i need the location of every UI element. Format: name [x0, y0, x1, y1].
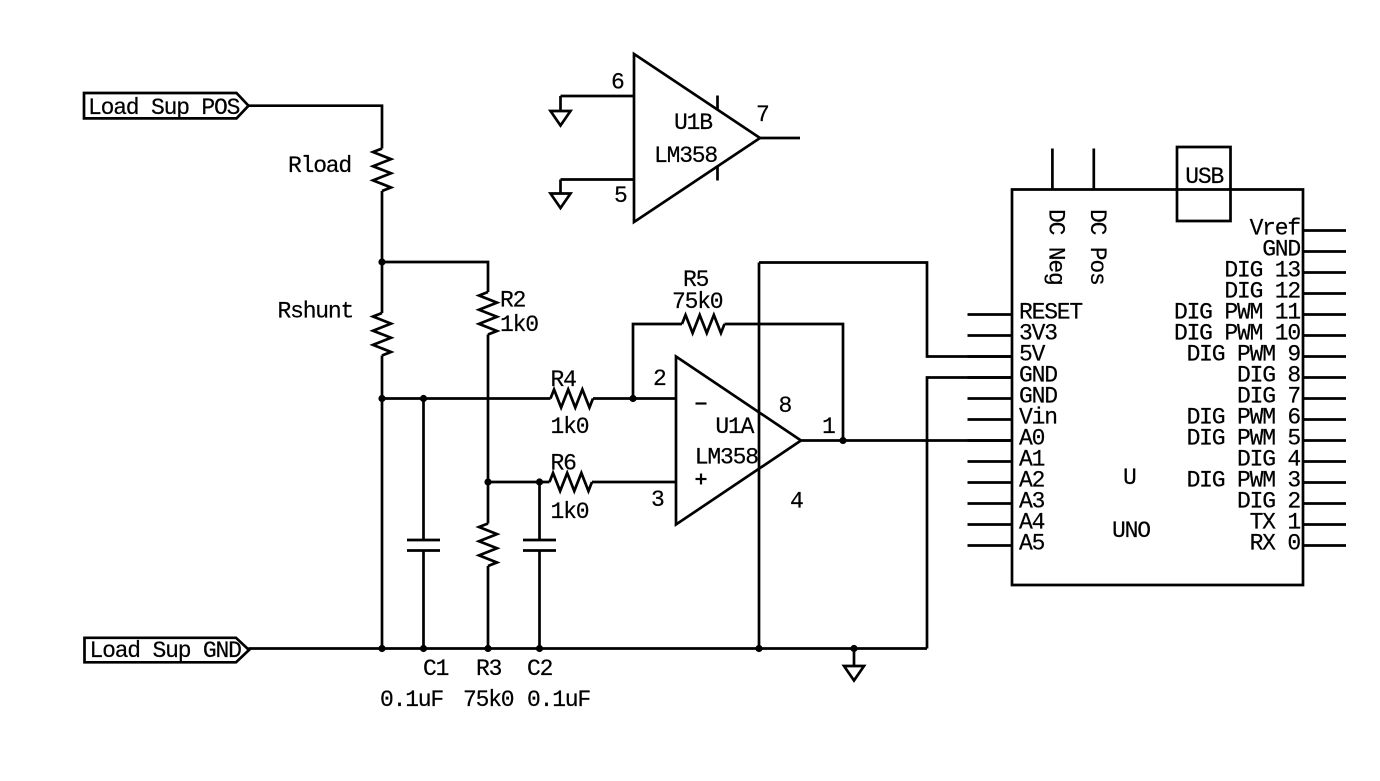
svg-text:R6: R6: [551, 451, 577, 477]
svg-text:2: 2: [653, 366, 666, 392]
svg-text:A5: A5: [1019, 530, 1045, 556]
svg-text:R2: R2: [500, 288, 526, 314]
svg-text:UNO: UNO: [1112, 518, 1150, 544]
svg-text:C1: C1: [423, 656, 449, 682]
svg-text:8: 8: [779, 393, 792, 419]
svg-text:1k0: 1k0: [500, 312, 538, 338]
svg-text:Load Sup GND: Load Sup GND: [90, 638, 242, 664]
svg-text:U1A: U1A: [715, 414, 754, 440]
svg-text:DC Neg: DC Neg: [1042, 209, 1068, 285]
svg-text:RX 0: RX 0: [1250, 530, 1301, 556]
svg-text:6: 6: [611, 70, 624, 96]
svg-text:R3: R3: [476, 656, 502, 682]
svg-text:DC Pos: DC Pos: [1084, 209, 1110, 285]
svg-text:U1B: U1B: [674, 110, 712, 136]
svg-text:R4: R4: [551, 367, 577, 393]
svg-text:Load Sup POS: Load Sup POS: [88, 95, 240, 121]
svg-text:USB: USB: [1185, 164, 1223, 190]
svg-text:0.1uF: 0.1uF: [380, 687, 443, 713]
svg-text:Rshunt: Rshunt: [278, 298, 354, 324]
svg-text:U: U: [1123, 465, 1136, 491]
svg-text:3: 3: [651, 487, 664, 513]
svg-text:Rload: Rload: [288, 153, 351, 179]
svg-text:75k0: 75k0: [672, 289, 723, 315]
svg-text:1k0: 1k0: [551, 499, 589, 525]
svg-text:7: 7: [756, 102, 769, 128]
svg-text:1: 1: [822, 414, 835, 440]
svg-text:75k0: 75k0: [463, 687, 514, 713]
svg-text:0.1uF: 0.1uF: [527, 687, 590, 713]
svg-text:LM358: LM358: [654, 143, 717, 169]
svg-text:LM358: LM358: [695, 445, 758, 471]
svg-text:4: 4: [790, 489, 803, 515]
svg-text:1k0: 1k0: [551, 414, 589, 440]
svg-text:5: 5: [614, 183, 627, 209]
svg-text:C2: C2: [527, 656, 553, 682]
